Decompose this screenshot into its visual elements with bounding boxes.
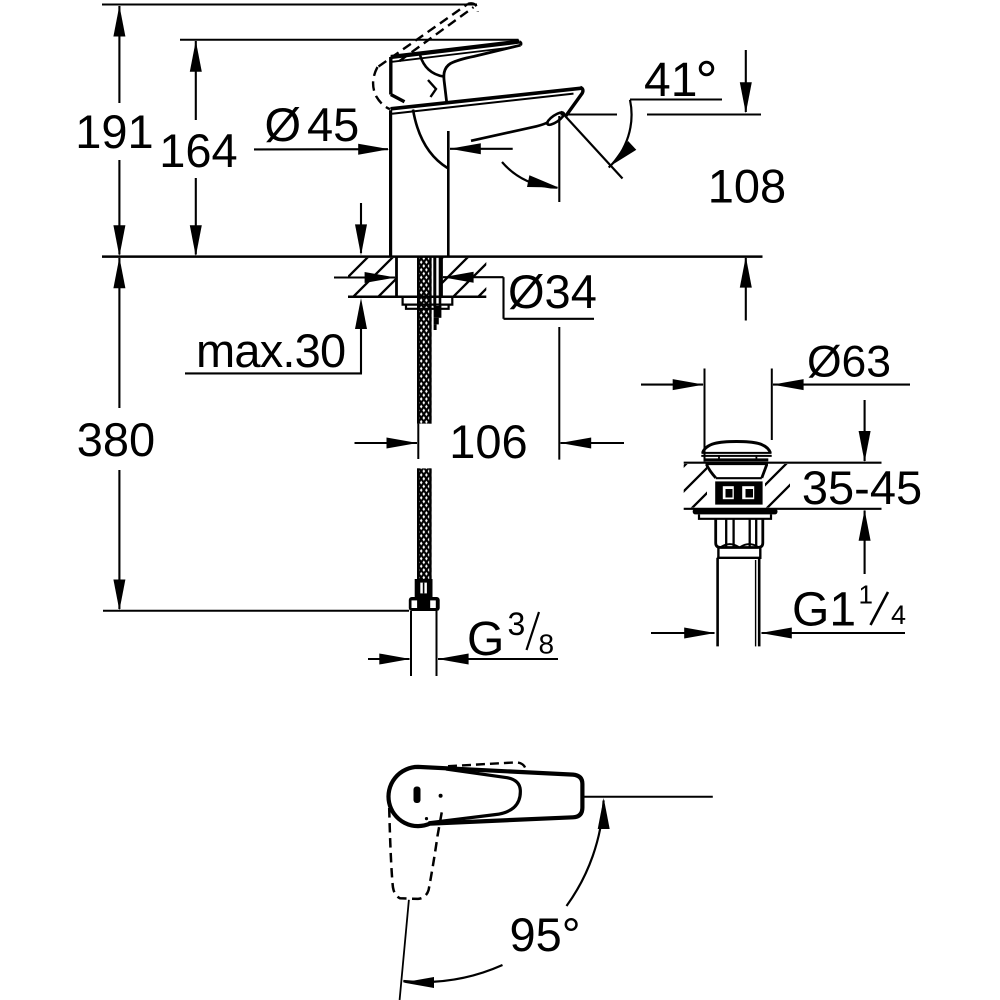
spout angle arc with arrow xyxy=(502,162,559,188)
svg-text:380: 380 xyxy=(77,413,155,466)
hose end collar xyxy=(415,579,433,597)
drain flange below deck xyxy=(693,509,778,519)
handle raised position (dashed) xyxy=(373,3,478,109)
dimension 380 xyxy=(77,257,155,610)
dimension 106 xyxy=(355,415,625,468)
angle 41 degrees: label line and arc xyxy=(609,54,722,168)
svg-text:164: 164 xyxy=(159,124,237,177)
svg-text:108: 108 xyxy=(708,160,786,213)
handle knob and cartridge dome xyxy=(391,55,444,102)
svg-text:106: 106 xyxy=(449,415,527,468)
svg-text:G: G xyxy=(467,613,504,666)
top view: pin dot xyxy=(425,817,428,820)
dimension G 3/8 xyxy=(368,606,558,666)
dimension diameter 63 xyxy=(641,338,910,391)
flexible supply hose (upper run, braided) xyxy=(417,257,432,424)
svg-text:191: 191 xyxy=(75,105,153,158)
svg-text:8: 8 xyxy=(539,629,555,660)
svg-text:max.30: max.30 xyxy=(196,324,345,377)
svg-text:1: 1 xyxy=(859,580,873,610)
reference line: top of handle (164 level) xyxy=(180,39,519,41)
spray direction diagonal xyxy=(561,112,623,179)
top view: rotated handle centerline xyxy=(400,900,409,1000)
drain extension lines for diameter 63 xyxy=(705,369,772,462)
drain tailpipe G 1 1/4 xyxy=(718,558,760,647)
top view: horizontal reference line xyxy=(583,796,713,798)
spray angle reference: vertical line at outlet xyxy=(558,116,560,202)
svg-text:Ø: Ø xyxy=(265,98,302,151)
spout axis extension line below deck xyxy=(558,327,560,460)
dimension G 1 1/4 xyxy=(651,580,906,639)
top view: dashed ridge upper position xyxy=(448,762,526,771)
svg-text:95°: 95° xyxy=(510,908,581,961)
spout underside edge xyxy=(471,122,549,141)
drain ring collar xyxy=(717,548,761,558)
handle lever (solid, horizontal position) xyxy=(391,42,521,102)
dimension 35-45 xyxy=(802,400,922,574)
G 3/8 threaded tube xyxy=(411,611,437,676)
dimension diameter 34 xyxy=(334,265,597,319)
body-to-spout transition arc xyxy=(413,110,448,169)
dimension max.30 xyxy=(185,203,367,377)
svg-text:41: 41 xyxy=(644,54,697,107)
drain locknut xyxy=(716,519,763,548)
svg-text:45: 45 xyxy=(307,98,359,151)
hose connector nut xyxy=(409,597,440,611)
top view: pivot slot xyxy=(414,787,421,804)
spout aerator outlet xyxy=(545,110,565,127)
drain push cap dome xyxy=(701,442,771,464)
flexible supply hose (lower run, braided) xyxy=(417,468,432,579)
drain deck section with hatching xyxy=(684,463,882,509)
svg-text:Ø63: Ø63 xyxy=(807,338,891,387)
drain body neck waist xyxy=(707,465,767,478)
mounting nut on shank tube xyxy=(434,306,442,330)
reference line: top of raised handle (191 level) xyxy=(102,4,477,6)
top view: handle ridge inner outline xyxy=(429,769,521,823)
mounting washer below deck xyxy=(403,297,453,309)
angle 95 degrees: arc with arrows xyxy=(403,798,610,988)
svg-text:Ø34: Ø34 xyxy=(508,265,597,318)
dimension 108 xyxy=(708,50,786,321)
dimension 164 xyxy=(159,41,237,256)
drain body with overflow windows xyxy=(715,478,762,504)
top view: handle rotated 95 degrees (dashed) xyxy=(389,808,442,899)
reference line: bottom of supply hose (380 level) xyxy=(103,610,409,612)
dimension 191 xyxy=(75,6,153,257)
spray angle reference: horizontal line at outlet level xyxy=(561,113,762,115)
spout end face xyxy=(566,87,583,115)
top view: screw dot xyxy=(439,794,443,798)
countertop deck with hatching xyxy=(102,257,763,297)
faucet body right edge xyxy=(447,131,450,257)
hose break centerline xyxy=(417,424,419,459)
svg-text:4: 4 xyxy=(891,600,906,630)
svg-text:3: 3 xyxy=(508,606,526,642)
svg-text:35-45: 35-45 xyxy=(802,461,922,514)
faucet body left edge xyxy=(389,110,392,256)
faucet shank tubes in deck hole xyxy=(435,257,440,307)
dimension diameter 45 xyxy=(254,98,513,155)
svg-text:G1: G1 xyxy=(792,584,856,637)
top view: handle outer outline xyxy=(388,767,582,826)
spout top edge xyxy=(391,88,582,114)
